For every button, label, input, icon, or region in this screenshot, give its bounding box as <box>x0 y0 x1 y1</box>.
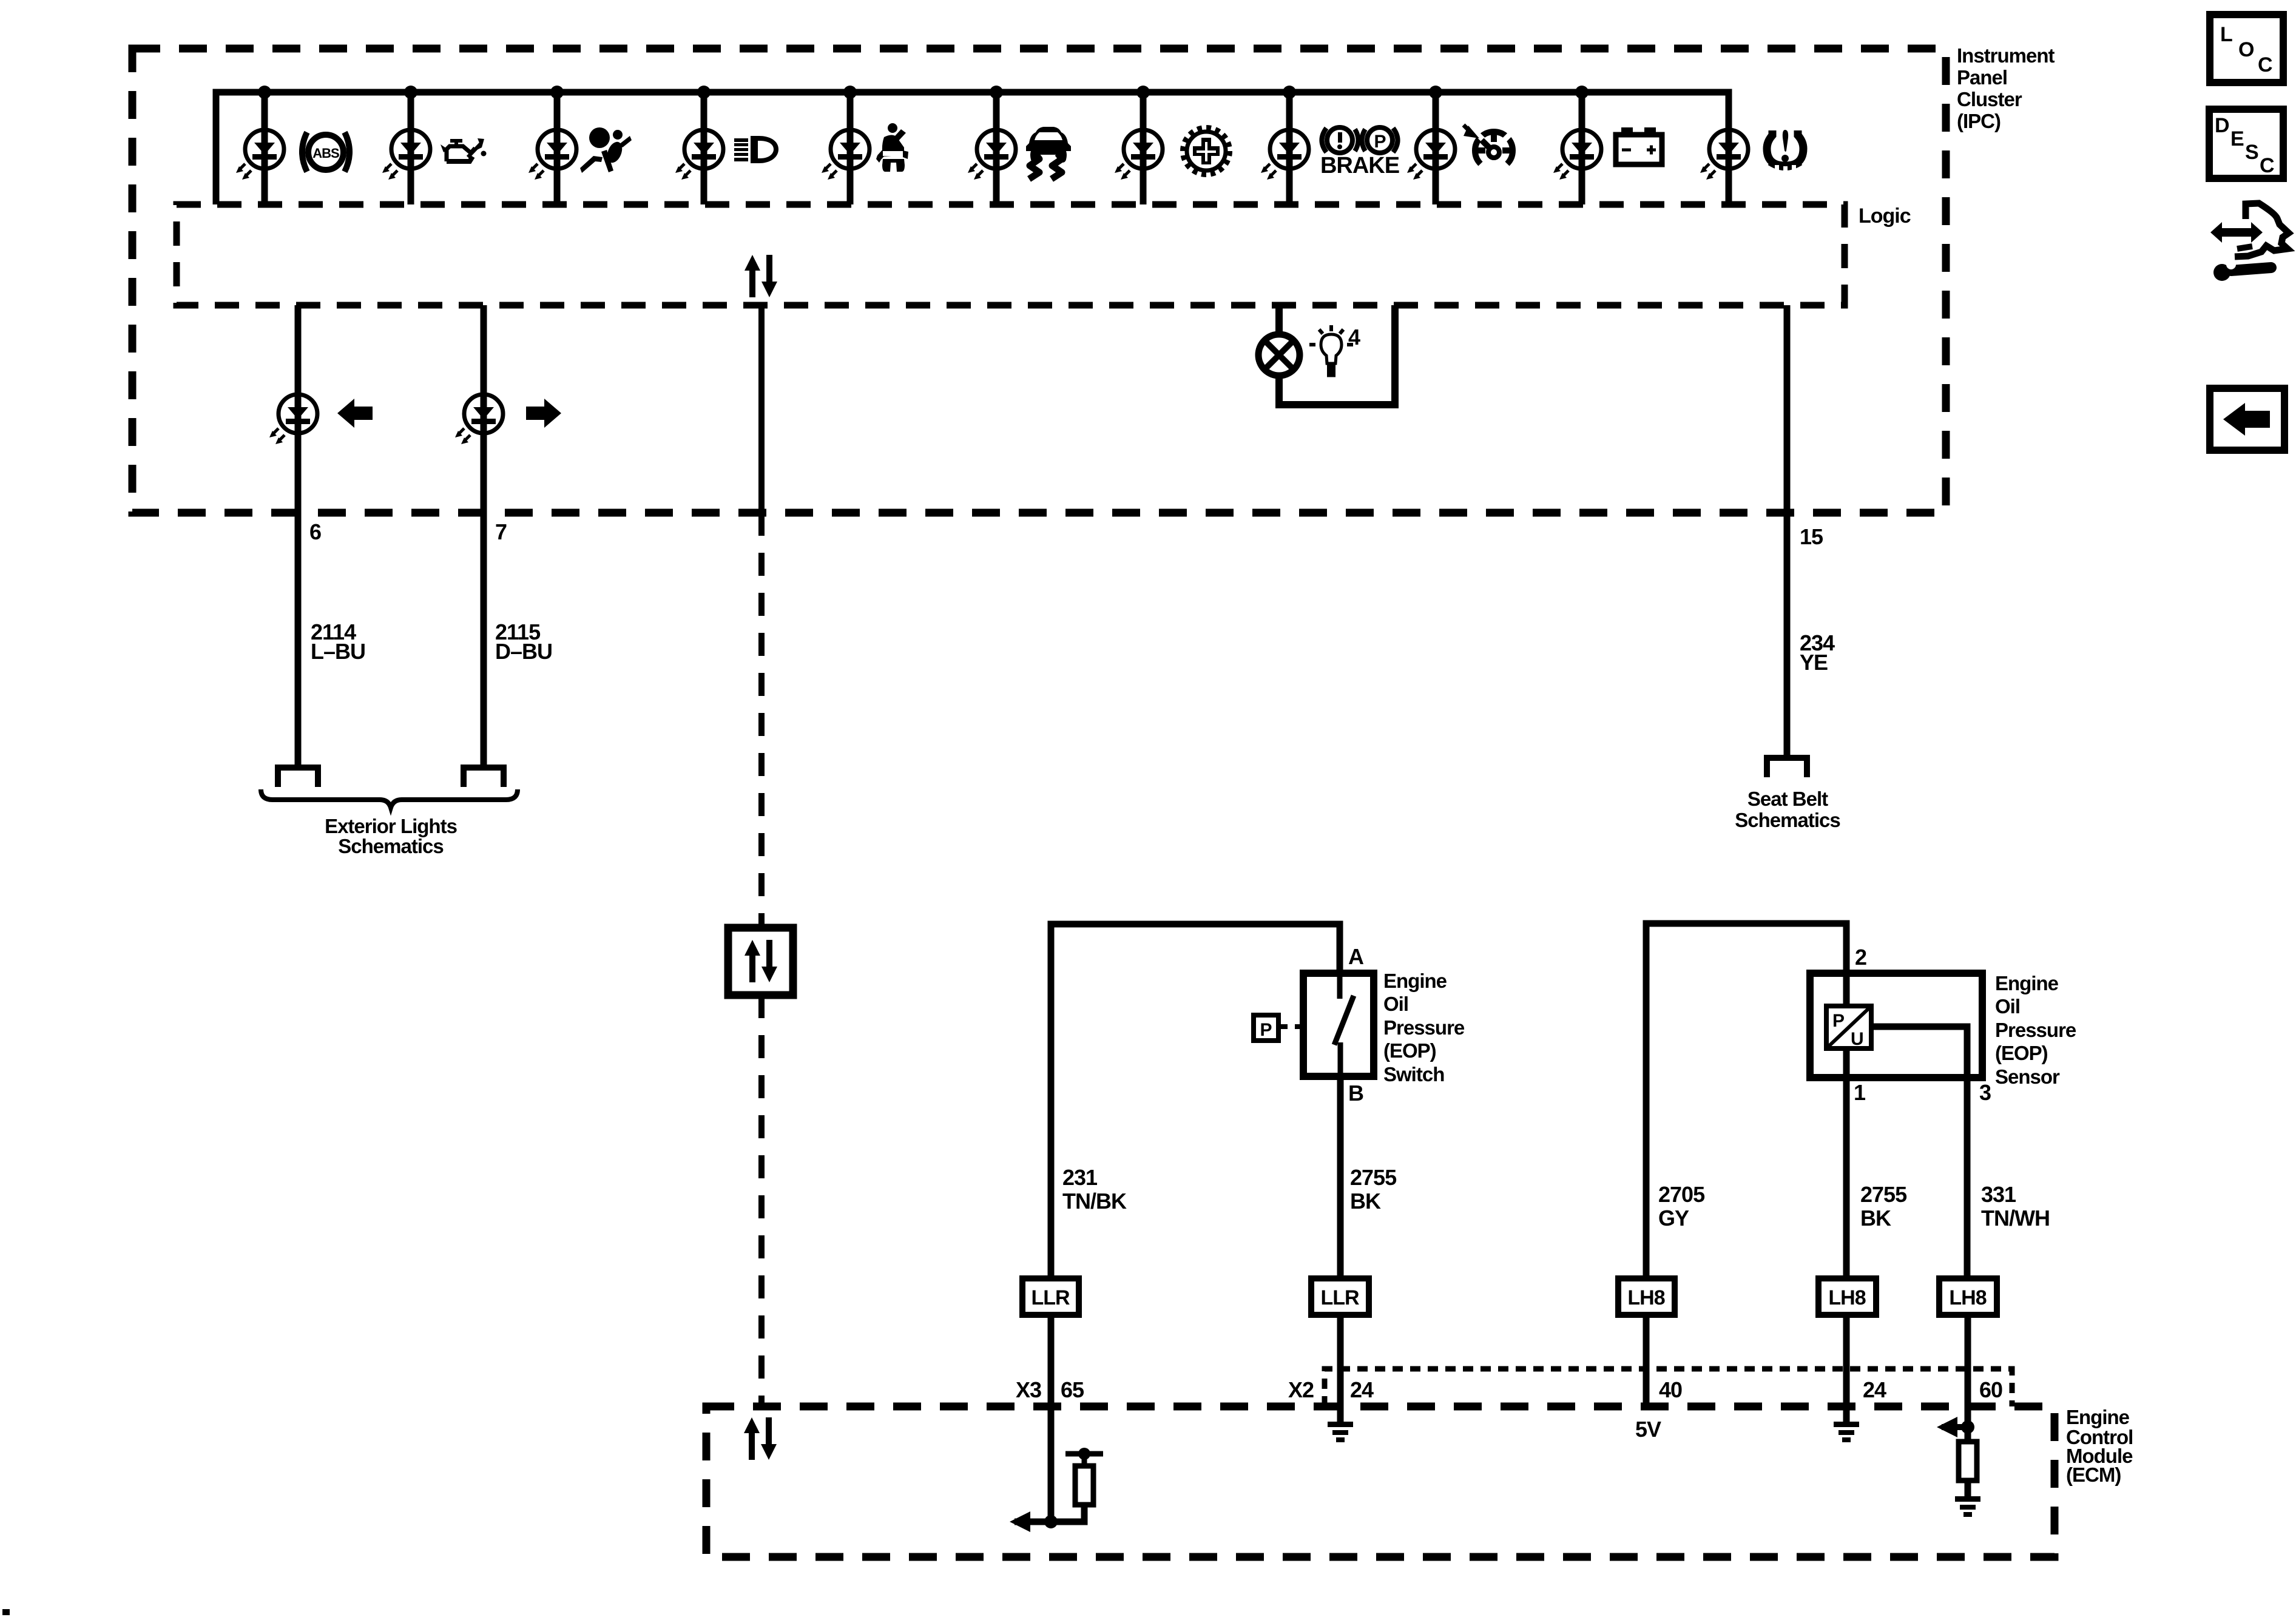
wire LED branch 3 <box>554 92 561 204</box>
wire serial data dashed (lower) <box>758 995 765 1406</box>
svg-text:Engine: Engine <box>2066 1406 2130 1428</box>
svg-text:Engine: Engine <box>1383 970 1447 992</box>
pin 1 <box>1854 1080 1866 1105</box>
svg-text:Oil: Oil <box>1383 993 1408 1015</box>
svg-text:Schematics: Schematics <box>1735 809 1840 831</box>
svg-text:O: O <box>2238 38 2254 61</box>
label Exterior Lights Schematics <box>325 815 457 857</box>
svg-text:15: 15 <box>1800 524 1823 549</box>
svg-text:BK: BK <box>1860 1206 1891 1230</box>
svg-text:Oil: Oil <box>1995 995 2020 1018</box>
wire transducer to pin 3 <box>1871 1027 1967 1278</box>
traction control icon <box>1026 127 1071 179</box>
ground (sensor 24) <box>1834 1422 1859 1442</box>
right turn arrow icon <box>526 399 561 428</box>
pin label 24 (switch) <box>1350 1377 1374 1402</box>
battery icon <box>1616 127 1662 164</box>
connector LLR (2755) <box>1311 1278 1369 1315</box>
wire right turn signal (circuit 2115) <box>481 305 487 766</box>
wire LED branch 8 <box>1286 92 1293 204</box>
pin 6 <box>309 519 321 544</box>
svg-text:ABS: ABS <box>312 146 339 161</box>
bulb icon with rays <box>1309 325 1353 376</box>
wire LLR to ECM pin 65 <box>1048 1315 1055 1522</box>
ground (switch 24) <box>1328 1422 1353 1442</box>
svg-text:Pressure: Pressure <box>1383 1016 1465 1039</box>
svg-text:24: 24 <box>1863 1377 1886 1402</box>
wire LH8 to ECM pin 40 <box>1643 1315 1650 1406</box>
lamp quantity label 4 <box>1348 325 1360 349</box>
wire LLR to ECM pin 24 <box>1337 1315 1344 1422</box>
svg-text:Schematics: Schematics <box>338 835 443 857</box>
svg-text:U: U <box>1851 1029 1863 1049</box>
svg-text:LH8: LH8 <box>1828 1286 1865 1309</box>
svg-text:(ECM): (ECM) <box>2066 1463 2121 1486</box>
svg-text:BK: BK <box>1350 1189 1381 1214</box>
ABS icon <box>302 132 349 172</box>
wire left turn signal (circuit 2114) <box>295 305 302 766</box>
resistor (65 pull-up) <box>1075 1466 1093 1505</box>
LED brake indicator <box>1261 130 1309 180</box>
junction on bus 1 <box>258 86 271 99</box>
wire label 2755 BK (sensor) <box>1860 1182 1907 1230</box>
indicator lamp circuit wire <box>1279 305 1395 405</box>
Engine Control Module dashed box <box>706 1406 2055 1557</box>
serial data box symbol <box>728 928 793 995</box>
svg-text:7: 7 <box>495 519 507 544</box>
svg-text:331: 331 <box>1981 1182 2016 1207</box>
svg-text:LH8: LH8 <box>1949 1286 1986 1309</box>
wire LH8 to ECM pin 24 (ground) <box>1843 1315 1850 1422</box>
EOP sensor box <box>1810 973 1982 1078</box>
LED oil pressure indicator <box>382 130 430 180</box>
junction on bus 8 <box>1283 86 1296 99</box>
lamp symbol <box>1258 334 1300 376</box>
wire transducer to pin 1 <box>1843 1048 1850 1278</box>
svg-text:E: E <box>2230 127 2244 150</box>
wire 231 TN/BK riser <box>1051 924 1340 1278</box>
svg-text:Logic: Logic <box>1859 204 1911 228</box>
svg-text:BRAKE: BRAKE <box>1320 153 1399 178</box>
LED ABS indicator <box>236 130 284 180</box>
pin A <box>1348 944 1364 969</box>
svg-text:P: P <box>1374 132 1385 152</box>
connector view icon (arrow through connector face with wrench) <box>2210 203 2289 281</box>
resistor (60) <box>1959 1442 1977 1480</box>
connector LLR (231) <box>1022 1278 1079 1315</box>
brace exterior lights <box>261 789 518 808</box>
svg-text:P: P <box>1832 1011 1844 1031</box>
pin B <box>1348 1081 1363 1106</box>
svg-text:Engine: Engine <box>1995 972 2059 994</box>
svg-text:1: 1 <box>1854 1080 1866 1105</box>
wire seat belt indicator (circuit 234) <box>1784 305 1791 756</box>
ground (60) <box>1955 1496 1980 1517</box>
wire serial data dashed (upper) <box>758 513 765 928</box>
label Seat Belt Schematics <box>1735 788 1840 831</box>
svg-text:2705: 2705 <box>1658 1182 1705 1207</box>
connector LH8 (2705) <box>1618 1278 1675 1315</box>
5V supply label <box>1635 1417 1661 1442</box>
LED airbag indicator <box>528 130 576 180</box>
wire LED branch 1 <box>262 92 268 204</box>
svg-text:65: 65 <box>1061 1377 1084 1402</box>
LED seat belt indicator <box>822 130 869 180</box>
svg-text:(EOP): (EOP) <box>1995 1042 2048 1064</box>
pin label X3 <box>1016 1377 1041 1402</box>
brake icon <box>1320 127 1399 178</box>
DESC legend box <box>2209 109 2283 178</box>
svg-text:LH8: LH8 <box>1627 1286 1664 1309</box>
junction on bus 9 <box>1429 86 1442 99</box>
svg-text:Seat Belt: Seat Belt <box>1747 788 1828 810</box>
wire label 234 YE <box>1800 630 1835 675</box>
svg-text:2: 2 <box>1855 945 1866 970</box>
pin 3 <box>1979 1080 1991 1105</box>
up/down arrows (ECM) <box>744 1417 777 1460</box>
connector to seat belt schematics <box>1767 758 1807 777</box>
svg-text:P: P <box>1260 1020 1271 1040</box>
junction on bus 10 <box>1575 86 1589 99</box>
LED battery indicator <box>1553 130 1601 180</box>
pin label X2 <box>1288 1377 1314 1402</box>
wire LED branch 10 <box>1579 92 1585 204</box>
pin label 60 <box>1979 1377 2002 1402</box>
ECM label <box>2066 1406 2133 1486</box>
svg-text:2755: 2755 <box>1860 1182 1907 1207</box>
svg-text:(EOP): (EOP) <box>1383 1039 1436 1062</box>
wire LED branch 7 <box>1140 92 1147 204</box>
junction on bus 3 <box>550 86 564 99</box>
oil can icon <box>441 138 487 161</box>
LED gear indicator <box>1115 130 1163 180</box>
pin 7 <box>495 519 507 544</box>
wire LED branch 9 <box>1433 92 1439 204</box>
connector to exterior lights (right) <box>464 768 504 787</box>
svg-text:L: L <box>2220 23 2232 46</box>
junction on bus 6 <box>990 86 1003 99</box>
svg-text:Sensor: Sensor <box>1995 1065 2060 1088</box>
svg-text:LLR: LLR <box>1320 1286 1359 1309</box>
IPC label <box>1957 44 2055 132</box>
connector LH8 (331) <box>1939 1278 1997 1315</box>
Instrument Panel Cluster (IPC) dashed box <box>132 49 1946 513</box>
wire label 2115 D-BU <box>495 619 552 664</box>
svg-text:D–BU: D–BU <box>495 639 552 664</box>
pressure transducer P/U <box>1826 1006 1871 1049</box>
EOP switch box <box>1303 973 1374 1076</box>
headlamp icon <box>734 136 778 163</box>
wire label 2755 BK <box>1350 1165 1397 1214</box>
pressure actuator P <box>1254 1015 1303 1041</box>
svg-text:TN/WH: TN/WH <box>1981 1206 2050 1230</box>
svg-text:LLR: LLR <box>1031 1286 1070 1309</box>
pin label 24 (sensor) <box>1863 1377 1886 1402</box>
LOC legend box <box>2210 15 2283 83</box>
wire label 2705 GY <box>1658 1182 1705 1230</box>
back arrow legend box <box>2210 388 2284 450</box>
Logic label <box>1859 204 1911 228</box>
junction on bus 5 <box>843 86 857 99</box>
wire 2755 BK (switch) <box>1337 1076 1344 1278</box>
pin label 65 <box>1061 1377 1084 1402</box>
svg-text:D: D <box>2215 114 2229 137</box>
svg-text:C: C <box>2260 154 2274 177</box>
svg-text:24: 24 <box>1350 1377 1374 1402</box>
wire LED branch 2 <box>408 92 414 204</box>
svg-text:X2: X2 <box>1288 1377 1314 1402</box>
svg-text:2755: 2755 <box>1350 1165 1397 1190</box>
pin 2 <box>1855 945 1866 970</box>
svg-text:Pressure: Pressure <box>1995 1019 2076 1041</box>
LED right turn indicator <box>455 394 503 444</box>
up/down arrows (logic) <box>745 255 777 297</box>
wire serial data (solid in IPC) <box>758 305 765 513</box>
svg-text:Exterior Lights: Exterior Lights <box>325 815 457 837</box>
wire label 331 TN/WH <box>1981 1182 2050 1230</box>
wire LED branch 5 <box>847 92 854 204</box>
EOP switch label <box>1383 970 1465 1085</box>
svg-text:L–BU: L–BU <box>311 639 365 664</box>
seat belt icon <box>876 123 908 172</box>
ECM internal node 65: signal line with pull-up resistor <box>1010 1448 1103 1532</box>
wire LED branch 6 <box>993 92 1000 204</box>
LED cruise indicator <box>1407 130 1455 180</box>
svg-text:6: 6 <box>309 519 321 544</box>
switch blade <box>1334 973 1354 1076</box>
X2 connector dotted box <box>1325 1369 2012 1406</box>
left turn arrow icon <box>337 399 373 428</box>
svg-text:S: S <box>2245 141 2258 164</box>
svg-text:4: 4 <box>1348 325 1360 349</box>
svg-text:40: 40 <box>1659 1377 1682 1402</box>
svg-text:5V: 5V <box>1635 1417 1661 1442</box>
gear icon <box>1183 127 1230 175</box>
svg-text:GY: GY <box>1658 1206 1689 1230</box>
svg-text:Panel: Panel <box>1957 66 2007 89</box>
TPMS icon <box>1767 130 1803 171</box>
LED left turn indicator <box>269 394 317 444</box>
svg-text:3: 3 <box>1979 1080 1991 1105</box>
pin label 40 <box>1659 1377 1682 1402</box>
svg-text:B: B <box>1348 1081 1363 1106</box>
svg-text:Switch: Switch <box>1383 1063 1444 1085</box>
LED TPMS indicator <box>1700 130 1748 180</box>
svg-text:Instrument: Instrument <box>1957 44 2055 67</box>
svg-text:TN/BK: TN/BK <box>1062 1189 1127 1214</box>
connector to exterior lights (left) <box>278 768 318 787</box>
wire label 231 TN/BK <box>1062 1165 1127 1214</box>
junction on bus 2 <box>404 86 417 99</box>
wire LED branch 4 <box>701 92 707 204</box>
svg-text:X3: X3 <box>1016 1377 1041 1402</box>
svg-text:231: 231 <box>1062 1165 1098 1190</box>
EOP sensor label <box>1995 972 2076 1088</box>
svg-text:A: A <box>1348 944 1364 969</box>
svg-text:YE: YE <box>1800 650 1828 675</box>
LED traction indicator <box>968 130 1016 180</box>
svg-text:60: 60 <box>1979 1377 2002 1402</box>
pin 15 <box>1800 524 1823 549</box>
connector LH8 (2755) <box>1818 1278 1876 1315</box>
LED headlamp indicator <box>675 130 723 180</box>
cruise icon <box>1464 125 1513 164</box>
svg-text:C: C <box>2258 53 2272 76</box>
IPC feed bus wire <box>216 92 1729 204</box>
airbag icon <box>580 127 632 173</box>
wire 2705 GY riser <box>1646 923 1846 1278</box>
ECM internal node 60: signal with resistor to ground <box>1937 1417 1974 1496</box>
Logic dashed box <box>177 204 1845 305</box>
wire LH8 to ECM pin 60 <box>1965 1315 1971 1442</box>
svg-text:Cluster: Cluster <box>1957 88 2022 110</box>
wire label 2114 L-BU <box>311 619 365 664</box>
svg-text:(IPC): (IPC) <box>1957 110 2001 132</box>
junction on bus 4 <box>697 86 711 99</box>
junction on bus 7 <box>1136 86 1150 99</box>
